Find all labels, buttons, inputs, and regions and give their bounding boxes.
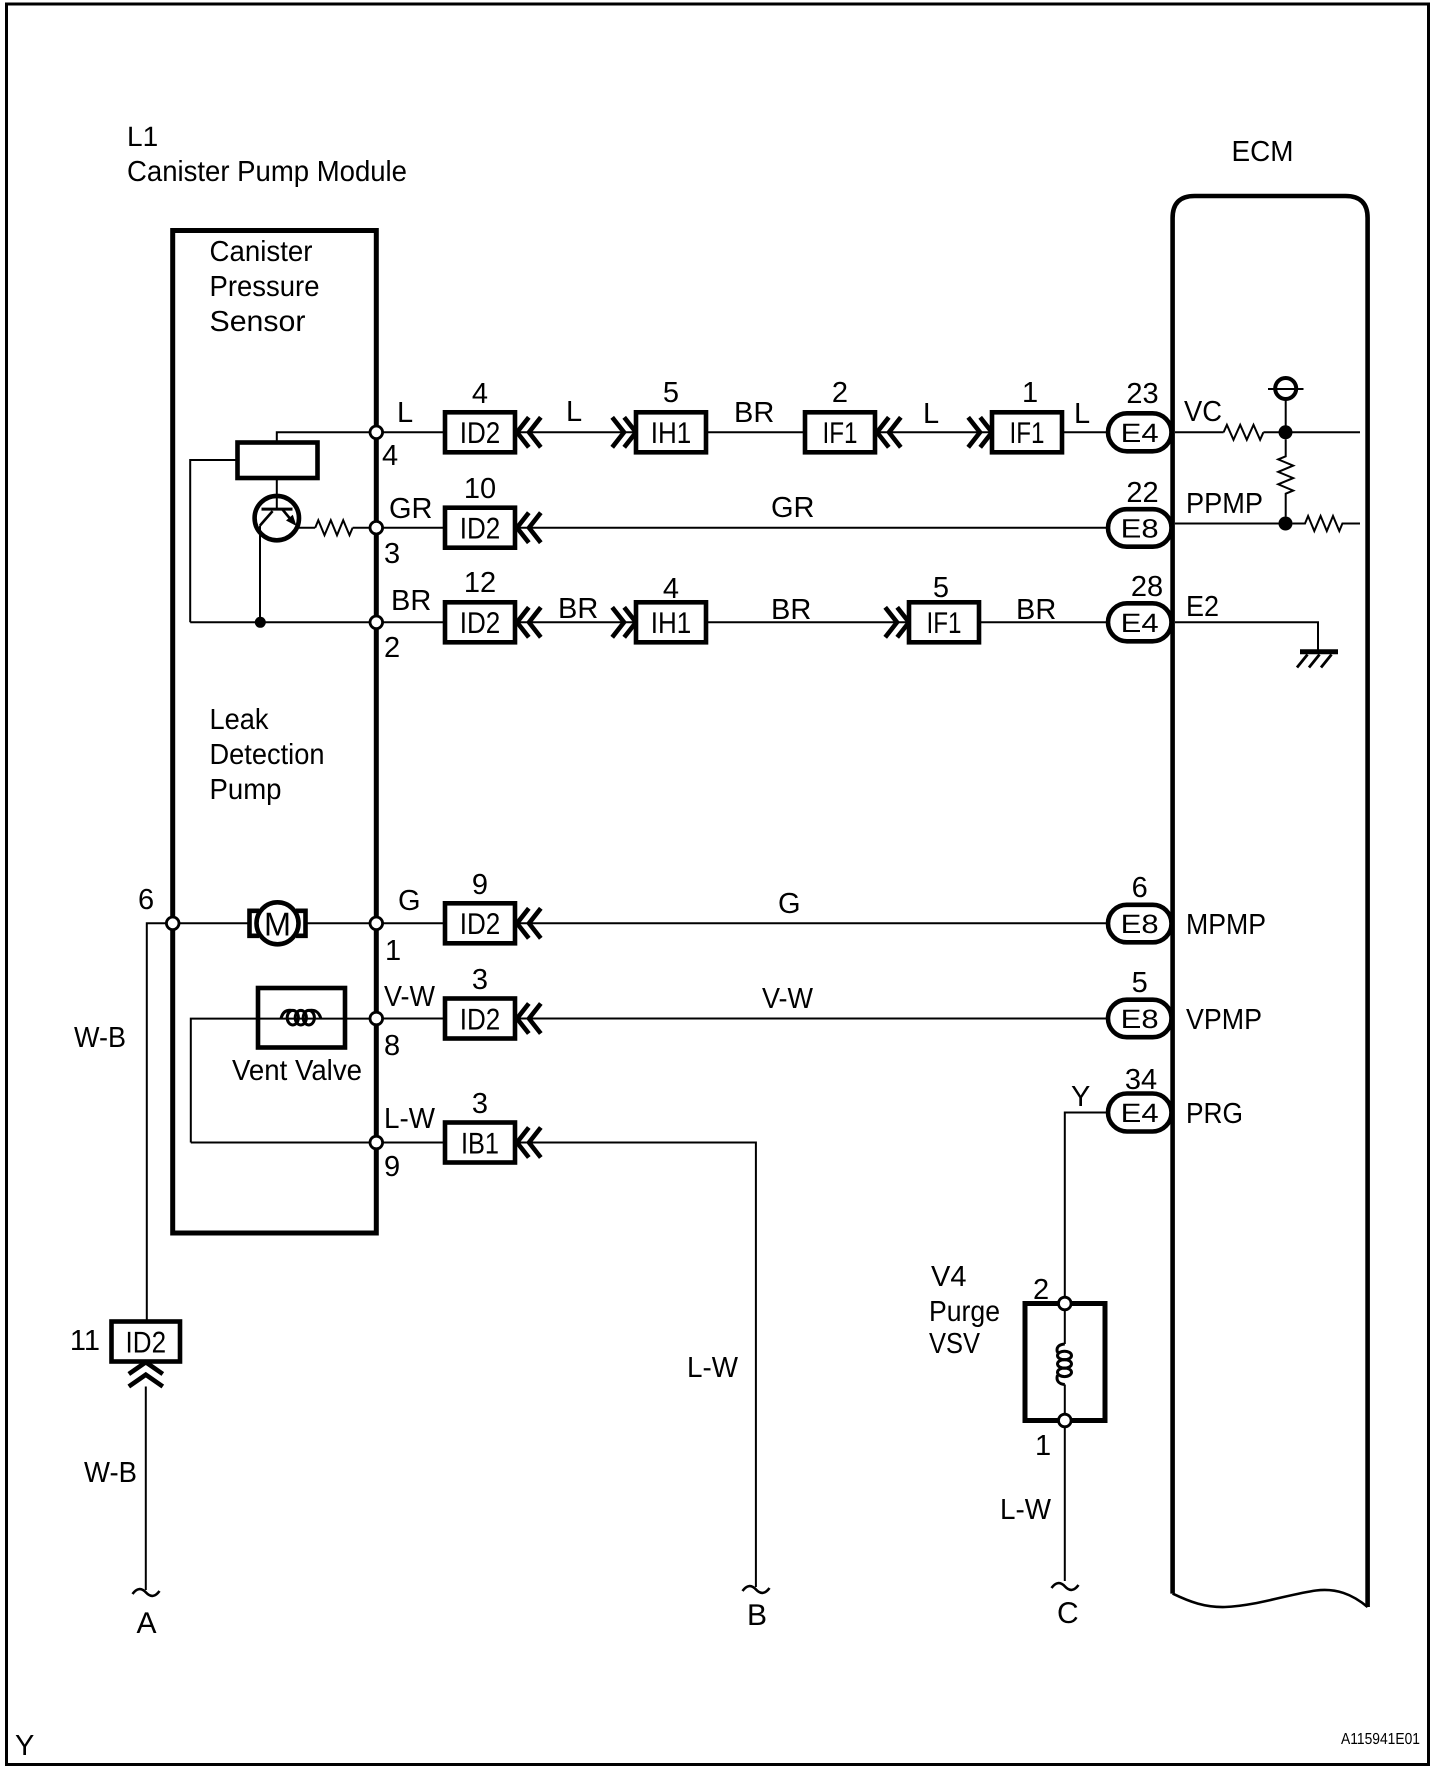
wire pin8 to ID2 (383, 1018, 445, 1020)
svg-text:PPMP: PPMP (1186, 488, 1263, 520)
node module pin 9 terminal (370, 1136, 383, 1149)
resistor VC pull-up series (1224, 425, 1264, 440)
solenoid V4 purge VSV box (1025, 1304, 1105, 1421)
svg-text:W-B: W-B (74, 1022, 126, 1054)
svg-text:PRG: PRG (1186, 1098, 1243, 1130)
connector arrows female ID2 (517, 1004, 541, 1034)
svg-text:5: 5 (663, 377, 679, 409)
svg-text:BR: BR (391, 585, 431, 617)
svg-text:2: 2 (1033, 1274, 1049, 1306)
connector arrows male IF1 (885, 607, 909, 637)
svg-text:ECM: ECM (1232, 136, 1294, 168)
svg-text:VPMP: VPMP (1186, 1004, 1262, 1036)
svg-text:G: G (398, 885, 421, 917)
svg-text:C: C (1057, 1597, 1079, 1630)
svg-text:6: 6 (138, 884, 154, 916)
coil V4 solenoid winding (1064, 1310, 1066, 1344)
connector arrows female IB1 (517, 1128, 541, 1158)
resistor pull-up vertical (1278, 439, 1293, 516)
node module pin 3 terminal (370, 521, 383, 534)
wire break at A (133, 1589, 160, 1596)
ECM connector E4 pin 23 (1108, 413, 1172, 451)
connector arrows male IF1 (968, 417, 992, 447)
ECM connector E4 pin 28 (1108, 603, 1172, 641)
svg-text:Pump: Pump (210, 774, 282, 806)
wire IH1 to IF1 (706, 621, 909, 623)
vent valve box (258, 988, 345, 1048)
wire IB1 to node B (515, 1143, 756, 1588)
wire IH1 to IF1 (706, 431, 805, 433)
svg-text:Pressure: Pressure (210, 271, 320, 303)
svg-text:L-W: L-W (384, 1103, 436, 1135)
svg-text:L: L (923, 398, 939, 430)
svg-text:L1: L1 (127, 121, 158, 152)
svg-text:Vent Valve: Vent Valve (232, 1055, 362, 1087)
wire E4 to V4 VSV (1065, 1113, 1108, 1297)
wire sensor box to transistor base (276, 478, 278, 509)
svg-text:BR: BR (558, 593, 598, 625)
svg-text:9: 9 (472, 869, 488, 901)
svg-text:L-W: L-W (687, 1352, 739, 1384)
svg-text:MPMP: MPMP (1186, 909, 1266, 941)
svg-text:3: 3 (472, 1088, 488, 1120)
svg-text:28: 28 (1131, 571, 1163, 603)
connector IF1 pin 2 (805, 412, 875, 452)
svg-text:Y: Y (1071, 1081, 1090, 1113)
connector IH1 pin 4 (636, 602, 706, 642)
wire break at C (1052, 1583, 1079, 1590)
ECM connector E8 pin 5 (1108, 1000, 1172, 1037)
connector arrows female ID2 (517, 607, 541, 637)
connector ID2 pin 3 (445, 999, 515, 1039)
svg-text:E4: E4 (1121, 418, 1159, 448)
wire transistor lower lead (259, 526, 261, 623)
wire ID2 to ECM E8 (515, 1018, 1108, 1020)
wire E2 to ground (1175, 622, 1318, 649)
svg-text:E8: E8 (1121, 514, 1159, 544)
svg-text:3: 3 (472, 964, 488, 996)
wire pin9 to IB1 (383, 1142, 445, 1144)
svg-text:L-W: L-W (1000, 1494, 1052, 1526)
svg-text:A115941E01: A115941E01 (1341, 1731, 1420, 1748)
svg-text:VSV: VSV (929, 1328, 981, 1360)
ECM connector E4 pin 34 (1108, 1094, 1172, 1132)
svg-text:ID2: ID2 (460, 607, 501, 640)
resistor PPMP series (1293, 516, 1361, 531)
motor M leak detection pump (250, 911, 260, 936)
wire motor to module pin 1 (306, 922, 371, 924)
svg-text:ID2: ID2 (460, 908, 501, 941)
svg-text:2: 2 (384, 632, 400, 664)
svg-text:5: 5 (1132, 967, 1148, 999)
svg-text:IH1: IH1 (651, 417, 692, 450)
connector arrows female ID2 (517, 417, 541, 447)
node module pin 6 terminal (166, 917, 179, 930)
connector arrows female ID2 (517, 908, 541, 938)
connector IH1 pin 5 (636, 412, 706, 452)
svg-text:BR: BR (734, 397, 774, 429)
svg-text:Leak: Leak (210, 704, 269, 736)
svg-text:B: B (747, 1599, 767, 1632)
connector arrows female IF1 (877, 417, 901, 447)
wire V4 to node C (1064, 1427, 1066, 1581)
svg-text:E8: E8 (1121, 1004, 1159, 1034)
connector arrows female ID2 (517, 513, 541, 543)
ECM connector E8 pin 22 (1108, 509, 1172, 547)
wire ID2 to node A (145, 1387, 147, 1591)
vent valve coil (281, 1010, 293, 1018)
wire resistor to junction (1263, 431, 1360, 433)
svg-text:ID2: ID2 (460, 1003, 501, 1036)
wire pin2 to ID2 (383, 621, 445, 623)
wire power to VC junction (1285, 399, 1287, 426)
node module pin 1 terminal (370, 917, 383, 930)
node V4 pin 1 terminal (1059, 1414, 1072, 1427)
wire through vent valve to module pin 8 (258, 1018, 370, 1020)
canister pressure sensor element box (238, 443, 318, 479)
wire L sensor top to module pin 4 (277, 432, 370, 442)
svg-text:IF1: IF1 (823, 417, 858, 450)
svg-text:Canister: Canister (210, 236, 313, 268)
node V4 pin 2 terminal (1059, 1297, 1072, 1310)
svg-text:2: 2 (832, 377, 848, 409)
wire ID2 to IH1 (515, 431, 636, 433)
connector ID2 pin 10 (445, 508, 515, 548)
wire IF1 to IF1 (875, 431, 992, 433)
wire VC inside ECM (1175, 431, 1224, 433)
connector ID2 pin 9 (445, 903, 515, 943)
node module pin 8 terminal (370, 1012, 383, 1025)
wire resistor to module pin 3 (353, 527, 370, 529)
wire ID2 to ECM E8 (515, 922, 1108, 924)
wire transistor emitter to resistor (299, 527, 315, 529)
svg-text:GR: GR (389, 493, 433, 525)
svg-text:Y: Y (15, 1730, 34, 1762)
svg-text:11: 11 (70, 1325, 100, 1357)
ECM body outline (1173, 196, 1368, 1607)
svg-text:L: L (1074, 398, 1090, 430)
svg-text:1: 1 (1022, 377, 1038, 409)
svg-text:5: 5 (933, 572, 949, 604)
connector ID2 pin 4 (445, 412, 515, 452)
wire IF1 to ECM E4 (1062, 431, 1108, 433)
svg-text:IB1: IB1 (461, 1127, 499, 1160)
connector arrows female ID2 upward (129, 1362, 163, 1386)
connector ID2 pin 12 (445, 602, 515, 642)
svg-text:1: 1 (1035, 1430, 1051, 1462)
node module pin 4 terminal (370, 426, 383, 439)
connector IF1 pin 5 (909, 602, 979, 642)
connector IF1 pin 1 (992, 412, 1062, 452)
wire IF1 to ECM E4 (979, 621, 1108, 623)
svg-text:IF1: IF1 (927, 607, 962, 640)
wire break at B (743, 1586, 770, 1593)
wire sensor left stub (190, 460, 237, 622)
power symbol B+ (1275, 378, 1296, 399)
svg-text:V-W: V-W (384, 981, 436, 1013)
node PPMP junction (1279, 517, 1293, 531)
node module pin 2 terminal (370, 616, 383, 629)
svg-text:L: L (566, 396, 582, 428)
node VC junction (1279, 425, 1293, 439)
wire ID2 to IH1 (515, 621, 636, 623)
svg-text:9: 9 (384, 1151, 400, 1183)
svg-text:10: 10 (464, 473, 496, 505)
svg-text:BR: BR (771, 594, 811, 626)
svg-text:23: 23 (1126, 378, 1158, 410)
svg-text:ID2: ID2 (126, 1326, 167, 1359)
svg-text:Purge: Purge (929, 1296, 1000, 1328)
svg-text:A: A (137, 1607, 157, 1640)
svg-text:4: 4 (382, 440, 398, 472)
svg-text:E2: E2 (1186, 591, 1219, 623)
ECM connector E8 pin 6 (1108, 905, 1172, 943)
wire pin4 to ID2 (383, 431, 445, 433)
svg-text:1: 1 (385, 935, 401, 967)
svg-text:Sensor: Sensor (210, 306, 306, 338)
wire pin6 to W-B drop (147, 923, 167, 1321)
svg-text:W-B: W-B (84, 1457, 137, 1489)
canister pump module L1 box (173, 231, 377, 1234)
resistor sensor output (315, 520, 352, 535)
svg-text:3: 3 (384, 538, 400, 570)
svg-text:BR: BR (1016, 594, 1056, 626)
svg-text:4: 4 (663, 573, 679, 605)
svg-text:E4: E4 (1121, 608, 1159, 638)
connector ID2 pin 11 (112, 1322, 181, 1362)
wire pin1 to ID2 (383, 922, 445, 924)
svg-text:M: M (264, 905, 291, 942)
svg-text:E4: E4 (1121, 1098, 1159, 1128)
connector arrows male IH1 (612, 417, 636, 447)
svg-text:VC: VC (1184, 396, 1222, 428)
svg-text:4: 4 (472, 378, 488, 410)
connector IB1 pin 3 (445, 1123, 515, 1163)
wire vent valve loop (191, 1019, 258, 1143)
svg-text:L: L (397, 397, 413, 429)
svg-text:ID2: ID2 (460, 417, 501, 450)
svg-text:34: 34 (1125, 1064, 1157, 1096)
svg-text:8: 8 (384, 1030, 400, 1062)
svg-text:ID2: ID2 (460, 513, 501, 546)
ECM torn bottom edge (1173, 1590, 1368, 1607)
svg-text:Canister Pump Module: Canister Pump Module (127, 156, 407, 188)
svg-text:Detection: Detection (210, 739, 325, 771)
svg-text:6: 6 (1132, 872, 1148, 904)
ground symbol (1300, 649, 1338, 654)
svg-text:V-W: V-W (762, 983, 814, 1015)
svg-text:GR: GR (771, 492, 815, 524)
node junction dot sensor common (255, 617, 266, 628)
wire pin3 to ID2 (383, 527, 445, 529)
wire sensor common to module pin 2 (190, 621, 370, 623)
wire ID2 to ECM E8 (515, 527, 1108, 529)
wire PPMP inside ECM (1175, 523, 1286, 525)
svg-text:IF1: IF1 (1010, 417, 1045, 450)
transistor Q (pressure sensor output) (255, 496, 299, 540)
svg-text:12: 12 (464, 567, 496, 599)
svg-text:G: G (778, 888, 801, 920)
svg-text:V4: V4 (931, 1261, 966, 1293)
connector arrows male IH1 (612, 607, 636, 637)
wire pin6 to motor (179, 922, 250, 924)
svg-text:IH1: IH1 (651, 607, 692, 640)
svg-text:E8: E8 (1121, 909, 1159, 939)
svg-text:22: 22 (1126, 477, 1158, 509)
wire vent valve return to module pin 9 (191, 1142, 370, 1144)
